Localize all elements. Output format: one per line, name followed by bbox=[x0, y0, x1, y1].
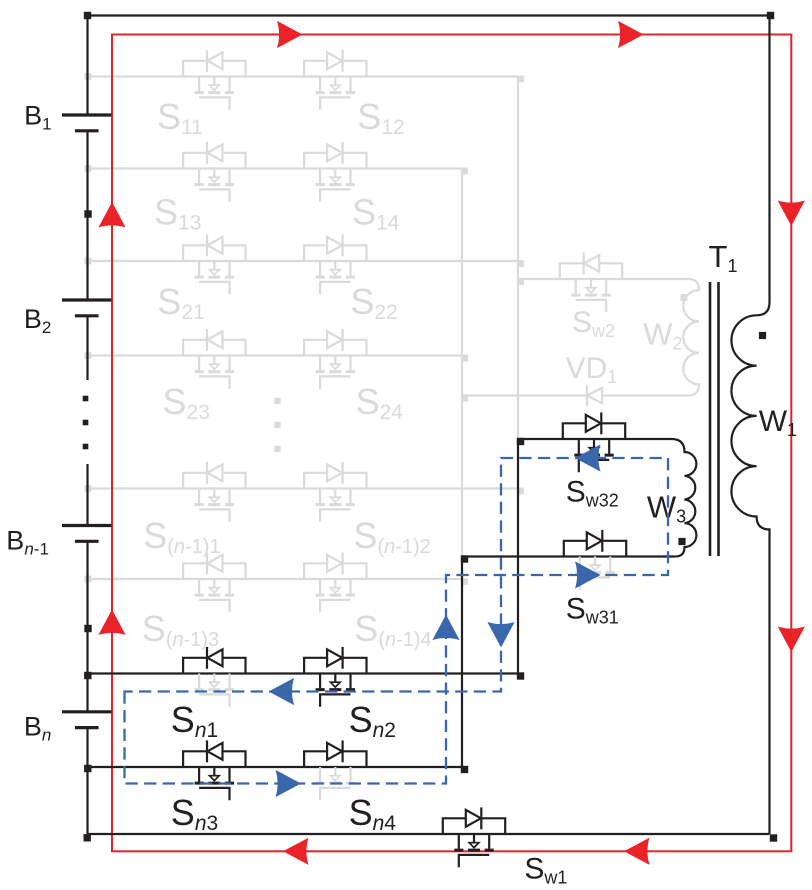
Sn1 body-diode box bbox=[183, 658, 245, 674]
Sn2 gate bbox=[320, 694, 350, 706]
svg-text:S13: S13 bbox=[154, 192, 201, 235]
S(n-1)3 gate bbox=[199, 600, 229, 612]
Sn3 diode triangle bbox=[207, 743, 222, 760]
wire: black bus A (Sw32 to row 7) bbox=[517, 439, 519, 674]
node: row 1 left junction bbox=[85, 73, 92, 80]
S12 gate bbox=[320, 97, 350, 109]
Sw2 MOSFET channel bars bbox=[571, 294, 610, 297]
S21 diode cathode bar bbox=[206, 234, 208, 256]
S(n-1)2 MOSFET channel legs bbox=[320, 489, 350, 504]
wire: row 4 horizontal bus bbox=[88, 354, 463, 356]
S(n-1)4 diode cathode bar bbox=[342, 552, 344, 574]
Sw31 diode cathode bar bbox=[601, 530, 603, 552]
wire: red balancing-current loop bbox=[112, 35, 791, 852]
node: row 3 bus junction bbox=[517, 260, 524, 267]
node: matrix ellipsis dot 3 bbox=[274, 446, 280, 452]
blue arrow: bus riser up bbox=[432, 615, 459, 641]
Sw2 diode cathode bar bbox=[583, 252, 585, 274]
S12 MOSFET channel bars bbox=[316, 91, 355, 94]
node: matrix ellipsis dot 1 bbox=[274, 398, 280, 404]
S11 substrate arrow bbox=[210, 85, 220, 90]
Sw32 substrate arrow bbox=[589, 448, 599, 453]
node: top-right corner bbox=[767, 12, 774, 19]
Sw31 substrate arrow bbox=[590, 565, 600, 570]
node: Sw2 bus junction bbox=[517, 278, 524, 285]
S22 MOSFET channel bars bbox=[316, 276, 355, 279]
S23 diode cathode bar bbox=[206, 329, 208, 351]
S22 diode cathode bar bbox=[342, 234, 344, 256]
Sn4 MOSFET channel bars bbox=[316, 782, 355, 785]
S23 body-diode box bbox=[183, 340, 245, 356]
S12 diode cathode bar bbox=[342, 50, 344, 72]
S13 diode cathode bar bbox=[206, 142, 208, 164]
S11 MOSFET channel bars bbox=[195, 91, 234, 94]
Sw1 MOSFET channel bars bbox=[454, 849, 493, 852]
Sn3 gate bbox=[199, 788, 229, 800]
S24 substrate arrow bbox=[331, 364, 341, 369]
node: VD1 bus junction bbox=[461, 395, 468, 402]
wire: row 6 horizontal bus bbox=[88, 578, 463, 580]
Sn3 body-diode box bbox=[183, 751, 245, 767]
wire: row 5 horizontal bus bbox=[88, 487, 519, 489]
S(n-1)2 diode cathode bar bbox=[342, 462, 344, 484]
transformer T1 core bbox=[710, 282, 719, 556]
Sn3 substrate arrow bbox=[210, 776, 220, 781]
svg-text:Sn1: Sn1 bbox=[171, 699, 218, 742]
svg-text:Sw32: Sw32 bbox=[566, 475, 619, 510]
node: B1-B2 junction bbox=[84, 210, 91, 217]
Sw31 diode triangle bbox=[587, 532, 602, 549]
S(n-1)3 diode triangle bbox=[207, 555, 222, 572]
S21 substrate arrow bbox=[210, 270, 220, 275]
S12 diode triangle bbox=[327, 52, 342, 69]
S(n-1)4 MOSFET channel legs bbox=[320, 579, 350, 594]
wire: black bus B (Sw31 to row 8) bbox=[461, 557, 463, 768]
S23 MOSFET channel legs bbox=[199, 356, 229, 371]
S24 gate bbox=[320, 376, 350, 388]
battery Bn plates bbox=[62, 712, 112, 728]
node: bus B row 8 junction bbox=[461, 766, 468, 773]
S22 body-diode box bbox=[304, 245, 366, 261]
S21 gate bbox=[199, 282, 229, 294]
svg-text:S14: S14 bbox=[352, 192, 400, 235]
S(n-1)4 diode triangle bbox=[327, 555, 342, 572]
node: row 6 bus junction bbox=[461, 578, 468, 585]
red arrow: bottom edge right bbox=[624, 838, 650, 865]
S22 diode triangle bbox=[327, 237, 342, 254]
S13 MOSFET channel legs bbox=[199, 169, 229, 184]
node: row 7 left junction bbox=[84, 672, 91, 679]
S11 diode triangle bbox=[207, 52, 222, 69]
Sn4 MOSFET channel legs bbox=[320, 767, 350, 782]
Sw2 MOSFET channel legs bbox=[576, 279, 606, 294]
node: row 2 bus junction bbox=[461, 168, 468, 175]
wire: row 1 horizontal bus bbox=[88, 75, 519, 77]
Sw1 gate bbox=[459, 855, 489, 867]
Sw1 diode triangle bbox=[466, 810, 481, 827]
S11 diode cathode bar bbox=[206, 50, 208, 72]
node: row 5 left junction bbox=[85, 485, 92, 492]
svg-text:T1: T1 bbox=[709, 239, 738, 276]
svg-text:Sw2: Sw2 bbox=[572, 306, 615, 341]
Sn1 gate bbox=[199, 694, 229, 706]
wire: row 3 horizontal bus bbox=[88, 260, 519, 262]
S24 diode triangle bbox=[327, 331, 342, 348]
Sw32 gate bbox=[579, 460, 609, 472]
S24 MOSFET channel legs bbox=[320, 356, 350, 371]
S14 MOSFET channel bars bbox=[316, 183, 355, 186]
S14 gate bbox=[320, 189, 350, 201]
diode VD1 bbox=[586, 385, 588, 406]
node: row 4 left junction bbox=[85, 352, 92, 359]
S(n-1)1 MOSFET channel bars bbox=[195, 503, 234, 506]
Sn1 diode triangle bbox=[207, 649, 222, 666]
winding W3 bbox=[672, 439, 697, 557]
S13 gate bbox=[199, 189, 229, 201]
node: row 6 left junction bbox=[85, 576, 92, 583]
S(n-1)3 diode cathode bar bbox=[206, 552, 208, 574]
S21 diode triangle bbox=[207, 237, 222, 254]
node: W1 polarity dot bbox=[759, 332, 766, 339]
S11 body-diode box bbox=[183, 61, 245, 77]
node: row 8 left junction bbox=[84, 765, 91, 772]
node: row 1 bus junction bbox=[517, 76, 524, 83]
svg-text:Sw31: Sw31 bbox=[566, 593, 619, 628]
wire: blue dashed discharge-current loop bbox=[125, 458, 669, 784]
S(n-1)1 diode triangle bbox=[207, 464, 222, 481]
svg-text:S(n-1)1: S(n-1)1 bbox=[143, 515, 220, 558]
Sw2 gate bbox=[576, 300, 606, 312]
node: W2 polarity dot bbox=[681, 294, 688, 301]
S14 diode cathode bar bbox=[342, 142, 344, 164]
Sw1 substrate arrow bbox=[469, 843, 479, 848]
node: W3 polarity dot bbox=[678, 538, 685, 545]
svg-text:VD1: VD1 bbox=[566, 352, 618, 387]
Sn3 MOSFET channel legs bbox=[199, 767, 229, 782]
S22 gate bbox=[320, 282, 350, 294]
wire: bottom row (Sw1 row) bbox=[88, 833, 770, 835]
blue arrow: bus dropper down bbox=[487, 622, 514, 648]
node: battery string ellipsis dot 1 bbox=[83, 396, 89, 402]
S(n-1)2 MOSFET channel bars bbox=[316, 503, 355, 506]
wire: row 2 horizontal bus bbox=[88, 167, 463, 169]
S21 MOSFET channel bars bbox=[195, 276, 234, 279]
S(n-1)3 MOSFET channel legs bbox=[199, 579, 229, 594]
node: top-left corner bbox=[84, 12, 91, 19]
blue arrow: Sw31 rightward bbox=[575, 561, 601, 588]
red arrow: left edge upper bbox=[98, 202, 125, 228]
S(n-1)1 substrate arrow bbox=[210, 497, 220, 502]
S(n-1)2 diode triangle bbox=[327, 464, 342, 481]
svg-text:B1: B1 bbox=[24, 101, 51, 134]
S21 body-diode box bbox=[183, 245, 245, 261]
svg-text:S24: S24 bbox=[356, 381, 404, 424]
S11 gate bbox=[199, 97, 229, 109]
node: matrix ellipsis dot 2 bbox=[274, 422, 280, 428]
red arrow: bottom edge left bbox=[283, 838, 309, 865]
S14 diode triangle bbox=[327, 144, 342, 161]
svg-text:Sn2: Sn2 bbox=[349, 699, 396, 742]
S11 MOSFET channel legs bbox=[199, 77, 229, 92]
winding W2 bbox=[683, 279, 699, 396]
svg-text:Sn3: Sn3 bbox=[171, 792, 218, 835]
S14 MOSFET channel legs bbox=[320, 169, 350, 184]
Sn3 MOSFET channel bars bbox=[195, 782, 234, 785]
Sn4 diode triangle bbox=[327, 743, 342, 760]
S(n-1)4 MOSFET channel bars bbox=[316, 594, 355, 597]
svg-text:S23: S23 bbox=[163, 381, 210, 424]
S14 substrate arrow bbox=[331, 177, 341, 182]
node: bus A Sw32 corner bbox=[517, 438, 524, 445]
red arrow: right edge lower bbox=[778, 627, 805, 653]
red arrow: left edge lower bbox=[98, 610, 125, 636]
Sw1 diode cathode bar bbox=[480, 807, 482, 829]
S22 MOSFET channel legs bbox=[320, 261, 350, 276]
Sn4 gate bbox=[320, 788, 350, 800]
wire: outer loop top bbox=[88, 14, 770, 16]
Sw32 diode cathode bar bbox=[600, 412, 602, 434]
blue arrow: row 8 rightward bbox=[276, 770, 302, 797]
S21 MOSFET channel legs bbox=[199, 261, 229, 276]
S(n-1)1 body-diode box bbox=[183, 473, 245, 489]
wire: Sw2 row to winding W2 bbox=[518, 278, 688, 280]
node: row 4 bus junction bbox=[461, 355, 468, 362]
Sn1 substrate arrow bbox=[210, 682, 220, 687]
S23 MOSFET channel bars bbox=[195, 370, 234, 373]
Sn1 diode cathode bar bbox=[206, 647, 208, 669]
S(n-1)1 gate bbox=[199, 509, 229, 521]
Sw2 diode triangle bbox=[584, 255, 599, 272]
svg-text:S11: S11 bbox=[157, 96, 203, 139]
battery B1 plates bbox=[62, 115, 112, 131]
Sw1 body-diode box bbox=[443, 818, 505, 834]
Sn3 diode cathode bar bbox=[206, 740, 208, 762]
Sw32 MOSFET channel legs bbox=[579, 439, 609, 454]
svg-text:S(n-1)2: S(n-1)2 bbox=[353, 515, 430, 558]
node: battery string ellipsis dot 3 bbox=[83, 444, 89, 450]
svg-text:W2: W2 bbox=[643, 317, 682, 354]
Sn2 diode cathode bar bbox=[342, 647, 344, 669]
wire: gray bus B vertical bbox=[461, 169, 463, 580]
S13 substrate arrow bbox=[210, 177, 220, 182]
svg-text:S(n-1)3: S(n-1)3 bbox=[142, 608, 219, 651]
node: bottom-left corner bbox=[84, 834, 91, 841]
svg-text:B2: B2 bbox=[24, 304, 51, 337]
wire: row 7 (Sn1/Sn2) bbox=[88, 672, 519, 674]
Sw32 MOSFET channel bars bbox=[574, 454, 613, 457]
wire: Sw31 row bbox=[462, 555, 675, 557]
node: bottom-right corner bbox=[770, 834, 777, 841]
svg-text:S22: S22 bbox=[350, 281, 397, 324]
Sw31 MOSFET channel legs bbox=[580, 557, 610, 572]
S12 body-diode box bbox=[304, 61, 366, 77]
S(n-1)2 substrate arrow bbox=[331, 497, 341, 502]
node: bus B Sw31 corner bbox=[461, 555, 468, 562]
S(n-1)2 gate bbox=[320, 509, 350, 521]
wire: Sw32 row bbox=[518, 438, 672, 440]
Sn4 substrate arrow bbox=[331, 776, 341, 781]
S24 body-diode box bbox=[304, 340, 366, 356]
node: Bn-1-Bn junction bbox=[84, 625, 91, 632]
S23 substrate arrow bbox=[210, 364, 220, 369]
S24 diode cathode bar bbox=[342, 329, 344, 351]
S24 MOSFET channel bars bbox=[316, 370, 355, 373]
battery Bn-1 plates bbox=[62, 526, 112, 542]
S(n-1)3 substrate arrow bbox=[210, 588, 220, 593]
S(n-1)1 diode cathode bar bbox=[206, 462, 208, 484]
red arrow: top edge right bbox=[618, 21, 644, 48]
S(n-1)3 MOSFET channel bars bbox=[195, 594, 234, 597]
Sn2 MOSFET channel bars bbox=[316, 688, 355, 691]
svg-text:Bn: Bn bbox=[24, 712, 51, 745]
S14 body-diode box bbox=[304, 153, 366, 169]
Sw1 MOSFET channel legs bbox=[459, 834, 489, 849]
Sw2 substrate arrow bbox=[586, 288, 596, 293]
red arrow: top edge left bbox=[277, 21, 303, 48]
node: row 5 bus junction bbox=[517, 488, 524, 495]
S13 MOSFET channel bars bbox=[195, 183, 234, 186]
svg-text:S21: S21 bbox=[157, 281, 204, 324]
S(n-1)1 MOSFET channel legs bbox=[199, 489, 229, 504]
blue arrow: row 7 leftward bbox=[269, 678, 295, 705]
battery B2 plates bbox=[62, 300, 112, 316]
svg-text:Sw1: Sw1 bbox=[524, 853, 567, 888]
Sw32 diode triangle bbox=[586, 415, 601, 432]
Sw31 MOSFET channel bars bbox=[575, 571, 614, 574]
S23 diode triangle bbox=[207, 331, 222, 348]
wire: row 8 (Sn3/Sn4) bbox=[88, 766, 463, 768]
Sn1 MOSFET channel legs bbox=[199, 674, 229, 689]
S(n-1)3 body-diode box bbox=[183, 563, 245, 579]
node: bus A row 7 junction bbox=[517, 672, 524, 679]
S23 gate bbox=[199, 376, 229, 388]
S22 substrate arrow bbox=[331, 270, 341, 275]
svg-text:S12: S12 bbox=[357, 96, 404, 139]
Sw2 body-diode box bbox=[560, 263, 622, 279]
S12 substrate arrow bbox=[331, 85, 341, 90]
node: row 2 left junction bbox=[85, 165, 92, 172]
wire: right side with winding W1 bbox=[731, 16, 769, 835]
Sw31 body-diode box bbox=[564, 541, 626, 557]
red arrow: right edge upper bbox=[778, 201, 805, 227]
Sn2 diode triangle bbox=[327, 649, 342, 666]
Sw32 body-diode box bbox=[563, 423, 625, 439]
blue arrow: Sw32 leftward bbox=[575, 444, 601, 471]
S(n-1)4 gate bbox=[320, 600, 350, 612]
S12 MOSFET channel legs bbox=[320, 77, 350, 92]
S(n-1)2 body-diode box bbox=[304, 473, 366, 489]
svg-text:W3: W3 bbox=[647, 490, 686, 527]
node: battery string ellipsis dot 2 bbox=[83, 420, 89, 426]
Sw31 gate bbox=[580, 577, 610, 589]
Sn2 MOSFET channel legs bbox=[320, 674, 350, 689]
S(n-1)4 body-diode box bbox=[304, 563, 366, 579]
svg-text:Sn4: Sn4 bbox=[349, 792, 397, 835]
Sn1 MOSFET channel bars bbox=[195, 688, 234, 691]
wire: gray bus A vertical bbox=[517, 77, 519, 489]
Sn4 body-diode box bbox=[304, 751, 366, 767]
wire: VD1 row to winding W2 bottom bbox=[462, 394, 688, 396]
Sn4 diode cathode bar bbox=[342, 740, 344, 762]
S13 diode triangle bbox=[207, 144, 222, 161]
S(n-1)4 substrate arrow bbox=[331, 588, 341, 593]
Sn2 body-diode box bbox=[304, 658, 366, 674]
S13 body-diode box bbox=[183, 153, 245, 169]
node: row 3 left junction bbox=[85, 258, 92, 265]
svg-text:S(n-1)4: S(n-1)4 bbox=[354, 608, 431, 651]
wire: left battery string bbox=[86, 16, 88, 839]
Sn2 substrate arrow bbox=[331, 682, 341, 687]
svg-text:Bn-1: Bn-1 bbox=[6, 526, 49, 559]
